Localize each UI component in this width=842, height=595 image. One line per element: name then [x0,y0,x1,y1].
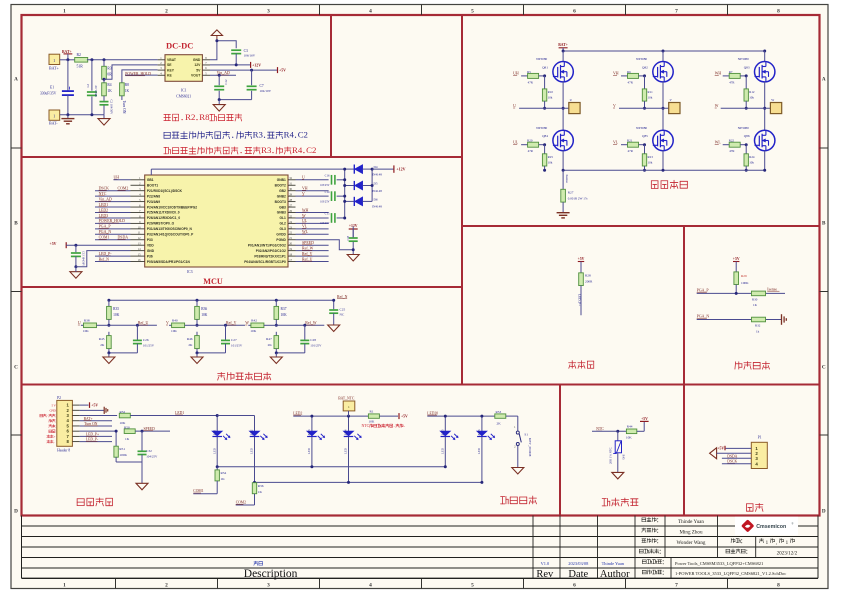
svg-text:1: 1 [63,8,66,14]
svg-text:R3: R3 [261,145,272,155]
svg-text:2K: 2K [497,422,502,426]
svg-text:VOUT: VOUT [191,73,201,77]
svg-text:+: + [54,435,56,439]
svg-text:KEY: KEY [167,68,175,72]
svg-text:VL: VL [302,225,308,229]
svg-text:GL1: GL1 [279,216,286,220]
svg-text:R27: R27 [568,191,574,195]
svg-text:1k: 1k [756,329,760,333]
svg-text:VH: VH [302,187,308,191]
svg-text:+12V: +12V [396,167,405,172]
svg-text:10k: 10k [648,96,653,100]
svg-text:Date: Date [568,569,588,580]
svg-text:LED: LED [212,447,216,454]
svg-text:100K: 100K [119,453,127,457]
svg-text:Q85: Q85 [642,134,648,138]
svg-text:SPEED: SPEED [302,241,314,245]
svg-text:DSCK: DSCK [99,187,110,191]
svg-text:WL: WL [302,230,309,234]
svg-text:2K: 2K [268,343,273,347]
svg-text:IN4148: IN4148 [372,205,382,209]
svg-text:DSDA: DSDA [118,236,129,240]
svg-text:P02/AN2/PG2/C1O2: P02/AN2/PG2/C1O2 [256,249,286,253]
svg-text:2K: 2K [100,343,105,347]
svg-text:P22/AN8: P22/AN8 [147,194,160,198]
svg-text:R29: R29 [741,274,747,278]
svg-text:101/25V: 101/25V [310,344,322,348]
svg-text:IN4148: IN4148 [372,189,382,193]
svg-text:C15: C15 [325,212,330,216]
svg-text:COM1: COM1 [99,236,110,240]
svg-text:+5V: +5V [279,69,286,73]
svg-text:PGA_N: PGA_N [99,230,112,234]
svg-text:R10: R10 [548,90,554,94]
svg-text:LED1: LED1 [99,203,109,207]
svg-text:R45: R45 [99,337,105,341]
svg-text:GL2: GL2 [279,222,286,226]
svg-text:UL: UL [302,219,308,223]
svg-text:103/25V: 103/25V [320,184,329,187]
svg-text:+5V: +5V [717,447,724,451]
svg-text:R51: R51 [119,447,125,451]
svg-text:101/25V: 101/25V [143,344,155,348]
svg-text:UL: UL [513,141,519,145]
svg-text:P2: P2 [57,396,61,400]
svg-text:330uF/35V: 330uF/35V [40,92,57,96]
svg-text:100K: 100K [741,281,749,285]
svg-text:DC-DC: DC-DC [166,41,193,51]
svg-text:101/25V: 101/25V [231,344,243,348]
svg-text:LED20: LED20 [427,411,438,415]
svg-text:LED2: LED2 [99,208,109,212]
svg-text:20K 1% NTC: 20K 1% NTC [609,447,613,464]
svg-text:104/10V: 104/10V [260,89,272,93]
svg-text:BAT+: BAT+ [84,417,93,421]
svg-text:+5V: +5V [578,257,585,261]
svg-text:GVDD: GVDD [276,233,286,237]
svg-text:1K: 1K [753,303,758,307]
svg-text:R52: R52 [120,410,126,414]
svg-text:2K: 2K [188,343,193,347]
svg-text:P26/AN12/RXD0/C1_0: P26/AN12/RXD0/C1_0 [147,216,180,220]
svg-text:R6: R6 [627,70,631,74]
svg-text:LED2: LED2 [250,429,254,437]
svg-text:7: 7 [675,583,678,589]
svg-text:Header 8: Header 8 [57,448,70,452]
svg-text:10K: 10K [281,313,288,317]
svg-text:BOOT3: BOOT3 [275,200,286,204]
svg-text:R35: R35 [113,307,119,311]
svg-text:LED: LED [307,447,311,454]
svg-text:LED: LED [477,447,481,454]
svg-text:LED5: LED5 [441,429,445,437]
svg-text:47R: 47R [528,149,534,153]
svg-text:R12: R12 [749,90,755,94]
svg-text:R32: R32 [755,324,761,328]
svg-text:Power Tools_CMS8M3533_LQFP32+: Power Tools_CMS8M3533_LQFP32+CMS6821 [675,561,763,566]
svg-text:C: C [14,365,18,371]
svg-text:P21/RXD1/(SCL)/DSCK: P21/RXD1/(SCL)/DSCK [147,189,183,193]
svg-text:C7: C7 [260,84,264,88]
svg-text:C14: C14 [325,190,330,194]
svg-text:5V: 5V [196,68,201,72]
svg-text:R44: R44 [627,424,633,428]
svg-text:D: D [14,509,18,515]
svg-text:R8: R8 [125,83,129,87]
svg-text:NTC: NTC [362,424,370,428]
svg-text:GND: GND [193,58,201,62]
svg-text:47R: 47R [528,80,534,84]
svg-text:Turn ON: Turn ON [122,101,126,114]
svg-text:P32/AN14/1Q/OSCOUT/OP0_P: P32/AN14/1Q/OSCOUT/OP0_P [147,233,194,237]
svg-text:+5V: +5V [50,242,57,246]
svg-text:V: V [613,104,616,108]
svg-text:2023/03/08: 2023/03/08 [568,561,589,566]
svg-text:W: W [771,98,774,102]
svg-text:R30: R30 [752,298,758,302]
svg-text:SE: SE [167,63,172,67]
svg-text:C: C [822,365,826,371]
svg-text:10k: 10k [548,161,553,165]
svg-text:A: A [822,77,826,83]
svg-text:R4: R4 [107,83,111,87]
svg-text:10K: 10K [626,435,632,439]
svg-text:NTC: NTC [596,427,604,431]
svg-text:104/25V: 104/25V [146,455,158,459]
svg-text:R3: R3 [253,129,264,139]
svg-text:R3: R3 [107,67,111,71]
svg-text:R28: R28 [585,274,591,278]
svg-text:BAT-: BAT- [49,121,58,126]
svg-text:10k: 10k [648,161,653,165]
svg-text:VL: VL [613,141,619,145]
svg-text:U: U [302,176,305,180]
svg-text:R47: R47 [266,337,272,341]
svg-text:Isense: Isense [565,175,569,184]
svg-text:R2: R2 [185,112,195,122]
svg-text:1K: 1K [258,490,263,494]
svg-text:R11: R11 [648,90,654,94]
svg-text:200R: 200R [585,280,593,284]
svg-text:IC1: IC1 [181,89,187,93]
svg-text:C12: C12 [224,79,228,85]
svg-text:LED4: LED4 [344,429,348,437]
svg-text:1-POWER TOOLS_3533_LQFP32_CMS6: 1-POWER TOOLS_3533_LQFP32_CMS6821_V1.2.S… [675,571,786,576]
svg-text:4: 4 [369,8,372,14]
svg-text:Ref_W: Ref_W [305,321,317,325]
svg-text:R23: R23 [648,155,654,159]
svg-text:GNB1: GNB1 [277,178,286,182]
svg-text:VDD: VDD [147,243,155,247]
svg-text:10k: 10k [749,96,754,100]
svg-text:1K: 1K [107,89,112,93]
svg-text:P01/AN1/INT1/PG1/C0O2: P01/AN1/INT1/PG1/C0O2 [248,243,286,247]
svg-text:Ref_N: Ref_N [337,295,348,299]
svg-text:R22: R22 [729,139,735,143]
svg-text:MCU: MCU [203,277,223,286]
svg-text:B: B [14,221,18,227]
svg-text:Ref_W: Ref_W [302,246,314,250]
svg-text:PGA_P: PGA_P [697,288,710,292]
svg-text:LED: LED [250,447,254,454]
svg-text:103/25V: 103/25V [320,222,329,225]
svg-text:8: 8 [777,583,780,589]
svg-text:10K: 10K [83,329,89,333]
svg-text:W: W [245,321,249,325]
svg-text:6: 6 [573,8,576,14]
svg-text:1K: 1K [125,437,130,441]
svg-text:R20: R20 [527,139,533,143]
svg-text:R4: R4 [284,129,295,139]
svg-text:WH: WH [715,72,722,76]
svg-text:R4: R4 [292,145,303,155]
svg-text:Vin_AD: Vin_AD [99,197,112,201]
svg-text:CMS6021: CMS6021 [176,95,191,99]
svg-text:P20/NRST/OP0_O: P20/NRST/OP0_O [147,222,175,226]
svg-text:C2 104/50V: C2 104/50V [110,100,114,116]
svg-text:47R: 47R [628,80,634,84]
svg-text:7: 7 [675,8,678,14]
svg-text:51R: 51R [77,64,84,68]
svg-text:C18: C18 [347,235,350,240]
svg-text:UH: UH [114,176,120,180]
svg-text:V1.0: V1.0 [541,561,550,566]
svg-text:5: 5 [471,583,474,589]
svg-text:E1: E1 [50,86,54,90]
svg-text:1: 1 [348,405,350,409]
svg-text:GNB2: GNB2 [277,194,286,198]
svg-text:Ref_V: Ref_V [302,252,313,256]
svg-text:BAT+: BAT+ [49,65,60,70]
svg-text:R53: R53 [496,410,502,414]
svg-text:NP3080: NP3080 [636,126,647,130]
svg-text:L3: L3 [86,84,90,88]
svg-text:P1: P1 [758,436,762,440]
svg-text:1: 1 [53,114,55,119]
svg-text:2023/12/2: 2023/12/2 [777,551,798,557]
svg-text:R8: R8 [199,112,210,122]
svg-text:P36: P36 [147,254,153,258]
svg-text:WL: WL [715,141,722,145]
svg-text:V: V [302,192,305,196]
svg-text:10K: 10K [201,313,208,317]
svg-text:NP3080: NP3080 [536,57,547,61]
svg-text:Q81: Q81 [542,65,548,69]
svg-text:Ref_U: Ref_U [138,321,149,325]
svg-text:Q83: Q83 [744,65,750,69]
svg-text:VH: VH [613,72,619,76]
svg-text:Q84: Q84 [542,134,548,138]
svg-text:D6: D6 [374,197,378,201]
svg-text:Ref_V: Ref_V [226,321,237,325]
svg-text:103/25V: 103/25V [320,200,329,203]
svg-text:47R: 47R [729,149,735,153]
svg-text:2: 2 [165,8,168,14]
svg-text:R24: R24 [749,155,755,159]
svg-text:VBAT: VBAT [167,58,177,62]
svg-text:+5V: +5V [641,417,648,421]
svg-text:NTC: NTC [99,192,107,196]
svg-text:P03/RN3/T2KX/C1P1: P03/RN3/T2KX/C1P1 [254,254,286,258]
svg-text:BOOT2: BOOT2 [275,183,286,187]
svg-text:,: , [776,541,777,546]
svg-text:A: A [14,77,18,83]
svg-text:POWER_HOLD: POWER_HOLD [99,219,126,223]
svg-text:LED: LED [344,447,348,454]
svg-text:D4: D4 [374,165,378,169]
svg-text:R50: R50 [124,425,130,429]
svg-text:10K: 10K [250,329,256,333]
svg-text:0.001R 2W 1%: 0.001R 2W 1% [568,197,588,201]
svg-text:10k: 10k [749,161,754,165]
svg-text:R36: R36 [201,307,207,311]
svg-text:®: ® [792,522,794,526]
svg-text:Q86: Q86 [744,134,750,138]
svg-text:U: U [78,321,81,325]
svg-text:B: B [822,221,826,227]
svg-text:3: 3 [267,583,270,589]
svg-text:BOOT1: BOOT1 [147,183,158,187]
svg-text:LED3: LED3 [307,429,311,437]
svg-text:LED_P+: LED_P+ [86,432,99,436]
svg-text:P05/AN5/SDA/PR1/PG1/C1N: P05/AN5/SDA/PR1/PG1/C1N [147,260,191,264]
svg-text:GB1: GB1 [147,178,154,182]
svg-text:8: 8 [777,8,780,14]
svg-text:IN4148: IN4148 [372,172,382,176]
svg-text:C27: C27 [231,338,237,342]
svg-text:PGA_N: PGA_N [697,315,710,319]
svg-text:P23/AN9: P23/AN9 [147,200,160,204]
svg-text:C3: C3 [244,49,248,53]
svg-text:R1: R1 [370,409,374,413]
svg-text:DSCK: DSCK [727,460,737,464]
svg-text:COM2: COM2 [118,187,129,191]
svg-text:LED6: LED6 [477,429,481,437]
svg-text:0R: 0R [107,73,112,77]
svg-text:1K: 1K [125,89,130,93]
svg-text:Ref_N: Ref_N [99,257,110,261]
svg-text:Thinde Yuan: Thinde Yuan [602,561,625,566]
svg-text:NP3080: NP3080 [536,126,547,130]
svg-text:P31/AN13/T9G/OSCIN/OP0_N: P31/AN13/T9G/OSCIN/OP0_N [147,227,193,231]
svg-text:GB3: GB3 [279,205,286,209]
svg-text:W: W [302,214,306,218]
svg-text:C26: C26 [143,338,149,342]
svg-text:NP3080: NP3080 [738,126,749,130]
svg-text:C32: C32 [146,449,152,453]
svg-text:6: 6 [573,583,576,589]
svg-text:BAT_NTC: BAT_NTC [338,396,355,400]
svg-text:C28: C28 [310,338,316,342]
svg-text:Isense: Isense [767,287,777,291]
svg-text:+5V: +5V [733,257,740,261]
svg-text:NC: NC [340,313,345,317]
svg-text:Turn ON: Turn ON [84,422,98,426]
svg-text:Cmsemicon: Cmsemicon [756,524,786,530]
svg-text:10K: 10K [171,329,177,333]
svg-text:+5V: +5V [91,404,98,408]
svg-text:R5: R5 [527,70,531,74]
svg-text:Author: Author [600,569,630,580]
svg-text:KE: KE [167,73,172,77]
svg-text:Ref_U: Ref_U [302,257,313,261]
svg-text:LED3: LED3 [99,214,109,218]
svg-text:12V: 12V [194,63,201,67]
svg-text:106/16V: 106/16V [244,54,256,58]
svg-text:D5: D5 [374,182,378,186]
svg-text:+5V: +5V [401,415,408,419]
svg-text:LED: LED [441,447,445,454]
svg-text:+12V: +12V [252,63,261,67]
svg-text:R45: R45 [622,455,626,461]
svg-text:U: U [513,104,516,108]
svg-text:LED2: LED2 [293,411,302,415]
svg-text:GNB3: GNB3 [277,211,286,215]
svg-text:LED_P-: LED_P- [86,438,99,442]
svg-text:COM2: COM2 [236,501,246,505]
svg-text:Wonder Wang: Wonder Wang [677,540,706,546]
svg-text:C2: C2 [306,145,316,155]
svg-text:R38: R38 [84,319,90,323]
svg-text:D: D [822,509,826,515]
svg-text:C16: C16 [325,173,330,177]
svg-text:P04/AN4/SCL/RGBT1/C1P0: P04/AN4/SCL/RGBT1/C1P0 [244,260,286,264]
svg-text:KEY_MODE: KEY_MODE [528,438,532,457]
svg-text:LED_P+: LED_P+ [577,294,581,306]
svg-text:R36: R36 [258,484,264,488]
svg-text:P24/AN10/CC1/IC6/T9/BEEP/PG2: P24/AN10/CC1/IC6/T9/BEEP/PG2 [147,205,197,209]
svg-text:GL3: GL3 [279,227,286,231]
svg-text:R34: R34 [221,471,227,475]
svg-text:R37: R37 [281,307,287,311]
svg-text:WH: WH [302,208,309,212]
svg-text:Rev: Rev [536,569,554,580]
svg-text:10K: 10K [113,313,120,317]
svg-text:R46: R46 [187,337,193,341]
svg-text:10K: 10K [369,420,375,424]
svg-text:10k: 10k [548,96,553,100]
svg-text:C2: C2 [298,129,308,139]
svg-text:1K: 1K [221,477,226,481]
svg-text:C25: C25 [340,307,346,311]
svg-text:1: 1 [63,583,66,589]
svg-text:Description: Description [244,568,298,580]
svg-text:-: - [54,440,55,444]
svg-text:LED1: LED1 [212,429,216,437]
svg-text:Thinde Yuan: Thinde Yuan [678,519,704,525]
svg-text:UH: UH [513,72,519,76]
svg-text:IC3: IC3 [187,270,193,274]
svg-text:S1: S1 [524,433,528,437]
svg-text:W: W [715,104,719,108]
svg-text:PGND: PGND [276,238,286,242]
svg-text:GND: GND [147,249,155,253]
svg-text:47R: 47R [729,80,735,84]
svg-text:SPEED: SPEED [144,427,156,431]
svg-text:5: 5 [471,8,474,14]
svg-text:Ming Zhou: Ming Zhou [679,530,703,536]
svg-text:POWER_HOLD: POWER_HOLD [125,72,151,76]
svg-text:BAT+: BAT+ [558,43,568,47]
svg-text:P25/AN11/TXD0/C0_0: P25/AN11/TXD0/C0_0 [147,211,180,215]
svg-text:V: V [166,321,169,325]
svg-text:C13 104/50V: C13 104/50V [82,251,85,266]
svg-text:LED_P-: LED_P- [99,252,113,256]
svg-text:R7: R7 [729,70,733,74]
svg-text:2: 2 [165,583,168,589]
svg-text:680/6.3V: 680/6.3V [94,84,98,97]
svg-text:R2: R2 [77,53,82,57]
